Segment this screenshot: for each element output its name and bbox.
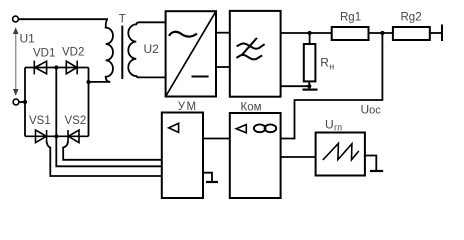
voltage arrow U1 bbox=[13, 27, 19, 96]
wire rectifier to filter (bottom) bbox=[216, 66, 230, 68]
thyristor VS2 bbox=[68, 130, 79, 143]
wire right vertical VD2 cathode down to VS row bbox=[88, 68, 90, 137]
comparator triangle symbol bbox=[236, 125, 246, 133]
wire filter bottom output to node E bbox=[281, 85, 310, 87]
diode VD1 bbox=[34, 61, 46, 75]
svg-text:U1: U1 bbox=[20, 32, 36, 46]
wire node G down to UM input 2 bbox=[56, 136, 162, 166]
rectifier AC symbol bbox=[169, 32, 197, 37]
wire diode row bbox=[25, 67, 89, 69]
wire UM to ground bbox=[203, 173, 212, 182]
thyristor VS1 bbox=[36, 130, 47, 143]
wire Rg1 to Rg2 bbox=[369, 32, 393, 34]
svg-text:U: U bbox=[325, 118, 334, 132]
filter symbol bbox=[236, 38, 264, 59]
svg-text:Rg1: Rg1 bbox=[340, 12, 361, 24]
ground bar at Ugp bbox=[370, 170, 383, 172]
output terminal bar bbox=[441, 25, 443, 42]
resistor Rg2 bbox=[393, 27, 430, 40]
svg-text:гп: гп bbox=[334, 123, 342, 133]
rectifier block U3 bbox=[166, 11, 216, 96]
wire Ugp to ground bbox=[365, 156, 376, 171]
node E junction dot (Rn bottom) bbox=[307, 84, 311, 88]
rectifier diagonal bbox=[166, 11, 216, 96]
filter block Z1 bbox=[230, 11, 281, 97]
terminal X1 (top input) bbox=[13, 16, 19, 22]
wire VS2 gate to UM input 1 bbox=[63, 142, 162, 160]
sawtooth waveform symbol bbox=[323, 143, 359, 160]
wire comparator to UM bbox=[203, 138, 230, 140]
terminal X2 (bottom input) bbox=[13, 99, 19, 105]
svg-text:УМ: УМ bbox=[178, 101, 198, 113]
wire left vertical VD1 cathode down to VS row bbox=[24, 68, 26, 137]
resistor Rg1 bbox=[332, 27, 369, 40]
diode VD2 bbox=[66, 61, 77, 75]
amplifier block UM bbox=[162, 113, 203, 199]
wire feedback Uoc from node F to comparator bbox=[281, 33, 383, 139]
svg-text:VS2: VS2 bbox=[65, 115, 87, 127]
node A junction dot bbox=[23, 100, 27, 104]
node G junction dot (VS row center) bbox=[54, 134, 58, 138]
wire comparator to sawtooth generator bbox=[281, 156, 316, 158]
wire bottom input to node A bbox=[19, 101, 25, 103]
wire VS1 gate to UM input 3 bbox=[47, 142, 162, 177]
wire node D down to Rn bbox=[309, 33, 311, 44]
wire top input to transformer primary bbox=[19, 18, 108, 20]
transformer T primary winding bbox=[106, 19, 113, 82]
comparator infinity symbol bbox=[254, 124, 276, 132]
ground bar at UM bbox=[206, 181, 218, 183]
svg-text:VD1: VD1 bbox=[33, 48, 55, 60]
comparator block Kom bbox=[230, 113, 281, 198]
svg-text:н: н bbox=[329, 61, 334, 71]
node C junction dot (transformer primary tap) bbox=[86, 80, 90, 84]
amplifier triangle symbol bbox=[169, 123, 179, 132]
ground bar under Rn bbox=[303, 88, 318, 90]
wire VS row bbox=[25, 135, 89, 137]
rectifier DC symbol (minus) bbox=[192, 76, 209, 78]
svg-text:Ком: Ком bbox=[241, 102, 262, 114]
resistor Rn bbox=[304, 44, 316, 81]
svg-text:T: T bbox=[119, 14, 126, 26]
wire Rn bottom to ground bbox=[308, 81, 310, 89]
wire transformer primary bottom to node C bbox=[89, 81, 111, 83]
sawtooth generator block Ugp bbox=[316, 133, 365, 176]
svg-text:R: R bbox=[320, 56, 329, 70]
svg-text:VS1: VS1 bbox=[29, 115, 51, 127]
wire filter output top rail bbox=[281, 32, 332, 34]
wire Rg2 to output terminal bbox=[430, 32, 441, 34]
node B junction dot (diode anodes) bbox=[54, 65, 58, 69]
transformer secondary winding bbox=[128, 22, 165, 77]
svg-text:Rg2: Rg2 bbox=[401, 12, 422, 24]
svg-text:VD2: VD2 bbox=[62, 47, 84, 59]
node D junction dot (Rn top tap) bbox=[308, 31, 312, 35]
svg-text:Uос: Uос bbox=[361, 102, 382, 116]
node F junction dot (feedback tap) bbox=[380, 31, 384, 35]
svg-text:U2: U2 bbox=[144, 42, 160, 56]
wire rectifier to filter (top) bbox=[216, 32, 230, 34]
transformer core bbox=[121, 26, 123, 80]
wire center vertical node B down to VS row bbox=[55, 68, 57, 137]
